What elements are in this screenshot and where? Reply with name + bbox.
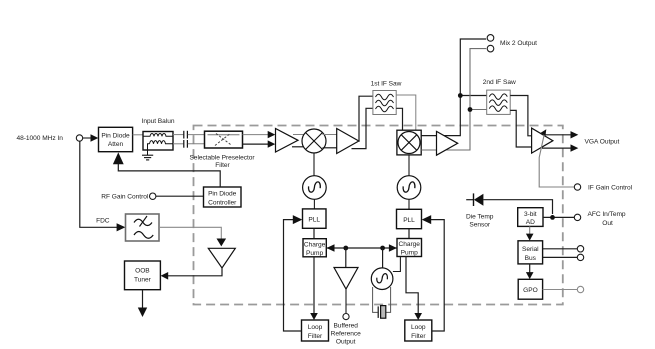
wire IF Gain Control bbox=[539, 129, 632, 191]
wire 3-bit AD to Serial Bus bbox=[526, 226, 534, 240]
wire buffer to Buffered Reference Output terminal bbox=[331, 289, 361, 345]
wire RF amp to mixer 1 bbox=[292, 135, 306, 147]
diode Die Temp Sensor bbox=[466, 193, 494, 228]
junction dot (XO branch) bbox=[380, 246, 385, 251]
amplifier IF amp 2 bbox=[437, 131, 458, 155]
wire mixer2 to LO2 bbox=[408, 155, 410, 176]
wire mixer 2 top output to 2nd IF Saw and Mix 2 Output bbox=[421, 39, 487, 136]
transformer Input Balun bbox=[142, 118, 175, 150]
block Charge Pump 1 bbox=[303, 239, 326, 257]
wire mixer1 to LO1 bbox=[313, 153, 315, 176]
svg-text:OOB: OOB bbox=[135, 268, 150, 275]
svg-text:Pin Diode: Pin Diode bbox=[101, 132, 130, 139]
amplifier OOB downconverter bbox=[208, 248, 235, 268]
svg-text:Sensor: Sensor bbox=[469, 222, 490, 229]
svg-text:Die Temp: Die Temp bbox=[466, 214, 494, 221]
block Pin Diode Controller bbox=[204, 187, 242, 207]
wire PLL2 to Charge Pump 2 bbox=[408, 229, 410, 239]
wire 2nd IF Saw to VGA (top) bbox=[510, 96, 531, 136]
svg-text:Charge: Charge bbox=[399, 241, 421, 248]
block FDC bbox=[96, 214, 159, 241]
block Serial Bus bbox=[518, 241, 543, 264]
svg-text:GPO: GPO bbox=[523, 287, 538, 294]
chip boundary dashed rectangle bbox=[194, 126, 563, 305]
wire Loop Filter 1 feedback to PLL1 bbox=[284, 215, 303, 331]
wire IF amp 1 to 1st IF Saw (top) bbox=[359, 96, 373, 141]
amplifier RF amp bbox=[276, 129, 299, 153]
svg-text:Loop: Loop bbox=[411, 324, 426, 331]
wire OOB amp to OOB Tuner bbox=[161, 268, 222, 280]
filter 2nd IF Saw bbox=[483, 79, 516, 114]
amplifier reference buffer bbox=[334, 268, 358, 290]
wire balun to coupling caps bbox=[173, 135, 183, 144]
svg-text:IF Gain Control: IF Gain Control bbox=[588, 184, 633, 191]
wire mixer 2 bottom output to 2nd IF Saw and Mix 2 Output bbox=[421, 49, 487, 150]
svg-text:Filter: Filter bbox=[308, 333, 323, 340]
block 3-bit AD bbox=[518, 208, 543, 227]
svg-text:Buffered: Buffered bbox=[333, 322, 358, 329]
wire Loop Filter 2 feedback to PLL2 bbox=[422, 215, 445, 331]
wire input terminal down to FDC bbox=[80, 141, 126, 231]
svg-text:Controller: Controller bbox=[208, 199, 237, 206]
svg-text:FDC: FDC bbox=[96, 218, 110, 225]
svg-text:48-1000 MHz In: 48-1000 MHz In bbox=[17, 135, 64, 142]
wire input terminal to Pin Diode Atten bbox=[83, 134, 99, 142]
svg-text:RF Gain Control: RF Gain Control bbox=[101, 194, 149, 201]
wire Pin Diode Controller to Pin Diode Atten bbox=[113, 152, 220, 187]
wire PLL1 to Charge Pump 1 bbox=[313, 228, 315, 238]
capacitor (top coupling) bbox=[184, 131, 188, 139]
amplifier IF amp 1 bbox=[337, 129, 359, 154]
wire 2nd IF Saw to VGA (bottom) bbox=[510, 110, 531, 147]
svg-text:Mix 2 Output: Mix 2 Output bbox=[500, 40, 537, 47]
wire reference line between charge pumps bbox=[326, 244, 397, 252]
wires Serial Bus to terminals bbox=[543, 246, 584, 261]
wire Charge Pump 2 to Loop Filter 2 bbox=[406, 257, 422, 321]
svg-text:Reference: Reference bbox=[331, 330, 361, 337]
svg-text:Pump: Pump bbox=[401, 250, 418, 257]
wire OOB Tuner output bbox=[138, 290, 147, 317]
wire caps to preselector filter bbox=[188, 135, 205, 144]
terminals Mix 2 Output bbox=[487, 35, 537, 52]
junction dot AFC node bbox=[550, 215, 555, 220]
wire 1st IF Saw to mixer 2 (top) bbox=[396, 95, 416, 130]
svg-text:VGA Output: VGA Output bbox=[585, 139, 620, 146]
block Loop Filter 2 bbox=[405, 320, 432, 341]
svg-text:AD: AD bbox=[526, 219, 535, 226]
svg-text:PLL: PLL bbox=[403, 217, 415, 224]
svg-text:3-bit: 3-bit bbox=[524, 211, 537, 218]
svg-text:AFC In/Temp: AFC In/Temp bbox=[588, 211, 626, 218]
node 48-1000 MHz In (input terminal) bbox=[17, 135, 83, 142]
node AFC In/Temp Out terminal bbox=[574, 211, 626, 227]
svg-text:Atten: Atten bbox=[108, 141, 124, 148]
wire Pin Diode Atten to Input Balun bbox=[133, 134, 143, 136]
block OOB Tuner bbox=[125, 261, 161, 290]
mixer MIX1 bbox=[302, 129, 326, 153]
oscillator LO2 bbox=[397, 176, 421, 200]
svg-text:2nd IF Saw: 2nd IF Saw bbox=[483, 79, 516, 86]
svg-text:Charge: Charge bbox=[304, 241, 326, 248]
wire to crystal oscillator bbox=[382, 248, 384, 268]
svg-text:Input Balun: Input Balun bbox=[142, 118, 175, 125]
block PLL2 bbox=[397, 209, 422, 228]
wire preselector to RF amp (bottom) bbox=[243, 140, 276, 147]
svg-text:Out: Out bbox=[602, 220, 613, 227]
svg-text:Selectable Preselector: Selectable Preselector bbox=[189, 155, 255, 162]
oscillator XO bbox=[371, 268, 393, 290]
wire mixer 1 to IF amp 1 bbox=[323, 135, 337, 148]
junction dot (mix2 top / saw2) bbox=[458, 93, 463, 98]
wire Serial Bus to GPO bbox=[526, 264, 534, 279]
wire 3-bit AD to AFC terminal bbox=[543, 216, 574, 218]
junction dot (buffer branch) bbox=[343, 246, 348, 251]
wire RF Gain Control to Pin Diode Controller bbox=[156, 195, 204, 197]
block Pin Diode Atten bbox=[99, 127, 133, 151]
mixer MIX2 bbox=[397, 130, 421, 155]
svg-text:Filter: Filter bbox=[411, 333, 426, 340]
wire LO1 to PLL1 bbox=[313, 199, 315, 209]
wire 1st IF Saw to mixer 2 (bottom) bbox=[396, 108, 402, 130]
svg-text:Serial: Serial bbox=[522, 246, 539, 253]
crystal X1 bbox=[373, 287, 391, 318]
ground (balun) bbox=[142, 144, 153, 160]
wire to reference buffer bbox=[345, 248, 347, 268]
wire LO2 to PLL2 bbox=[408, 199, 410, 209]
wire preselector to RF amp (top) bbox=[243, 131, 276, 138]
svg-text:Loop: Loop bbox=[308, 324, 323, 331]
svg-text:Pin Diode: Pin Diode bbox=[208, 191, 237, 198]
wire Charge Pump 1 to Loop Filter 1 bbox=[310, 257, 318, 320]
svg-text:Filter: Filter bbox=[215, 162, 230, 169]
wire die temp diode to AFC node bbox=[483, 200, 552, 214]
svg-text:Output: Output bbox=[336, 338, 356, 345]
svg-text:Pump: Pump bbox=[306, 250, 323, 257]
wire FDC to OOB downconverter amp bbox=[159, 227, 226, 246]
junction dot (mix2 bottom / saw2) bbox=[468, 107, 473, 112]
oscillator LO1 bbox=[303, 176, 327, 200]
wire VGA outputs bbox=[542, 131, 619, 152]
filter 1st IF Saw bbox=[371, 81, 402, 115]
amplifier VGA bbox=[532, 128, 553, 153]
wire GPO to terminal bbox=[543, 286, 584, 292]
svg-text:PLL: PLL bbox=[308, 217, 320, 224]
filter Selectable Preselector bbox=[189, 131, 255, 169]
block Charge Pump 2 bbox=[397, 239, 422, 257]
node RF Gain Control terminal bbox=[101, 193, 156, 201]
svg-text:Bus: Bus bbox=[525, 255, 537, 262]
block GPO bbox=[518, 279, 542, 299]
svg-text:1st IF Saw: 1st IF Saw bbox=[371, 81, 402, 88]
wire IF amp 1 to 1st IF Saw (bottom) bbox=[352, 108, 373, 148]
block Loop Filter 1 bbox=[302, 320, 329, 341]
capacitor (bottom coupling) bbox=[184, 140, 188, 148]
wire XO to Charge Pump 2 bbox=[393, 257, 401, 272]
block PLL1 bbox=[303, 209, 327, 228]
svg-text:Tuner: Tuner bbox=[134, 276, 152, 283]
